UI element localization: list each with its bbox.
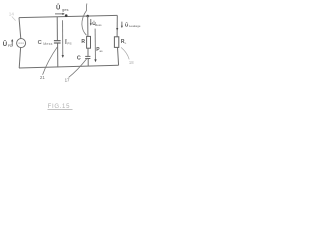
resistor box R_L — [114, 37, 118, 48]
wire measuring branch vertical upper — [87, 16, 89, 36]
wire below capacitor — [87, 59, 89, 66]
reference numeral 17 with leader — [65, 58, 88, 83]
source U_PD circle — [17, 39, 26, 48]
current arrow I_PS — [62, 20, 64, 58]
svg-text:C: C — [77, 56, 81, 62]
wire right branch vertical lower — [118, 47, 119, 65]
svg-text:Mess: Mess — [95, 23, 102, 27]
label I_PS — [64, 38, 71, 46]
label U_PD with up arrow — [3, 39, 14, 48]
svg-text:14: 14 — [9, 12, 15, 17]
label R_L — [121, 39, 127, 45]
current arrowhead on right branch wire — [116, 28, 118, 31]
wire between R and C — [87, 48, 89, 56]
resistor box R — [87, 36, 91, 48]
svg-text:Û: Û — [3, 41, 7, 48]
wire right branch vertical upper — [116, 15, 118, 36]
svg-text:Leakage: Leakage — [129, 24, 141, 28]
svg-text:Mess: Mess — [43, 42, 52, 46]
svg-text:ges: ges — [62, 7, 68, 12]
wire C branch vertical lower — [57, 43, 59, 67]
wire left vertical lower — [19, 48, 20, 68]
arc coupling symbol — [82, 4, 87, 36]
capacitor C — [85, 56, 90, 58]
svg-text:21: 21 — [40, 75, 45, 80]
svg-text:R: R — [81, 39, 85, 45]
svg-text:17: 17 — [65, 78, 70, 83]
wire C branch vertical upper — [56, 17, 58, 41]
label U_Mess with down arrow — [90, 19, 102, 27]
current arrow I_Mess — [94, 29, 96, 63]
label U_ges with right arrow and node dot — [55, 5, 68, 17]
wire bottom horizontal — [19, 65, 119, 68]
reference numeral 21 with leader — [40, 47, 58, 80]
caption FIG.15 — [48, 104, 73, 110]
label C_mess — [38, 40, 53, 46]
node dot middle branch — [86, 15, 89, 18]
reference numeral 18 with leader — [121, 47, 134, 64]
label I_Leakage with down arrow — [121, 22, 141, 29]
wire left vertical upper — [19, 18, 21, 39]
svg-text:18: 18 — [129, 60, 134, 65]
svg-text:PS: PS — [67, 42, 71, 46]
label I_Mess — [96, 47, 103, 53]
svg-text:Û: Û — [56, 5, 60, 12]
svg-text:FIG.15: FIG.15 — [48, 104, 71, 110]
capacitor C_mess — [54, 41, 61, 43]
reference numeral 14 — [9, 12, 16, 21]
wire top horizontal — [19, 15, 117, 17]
